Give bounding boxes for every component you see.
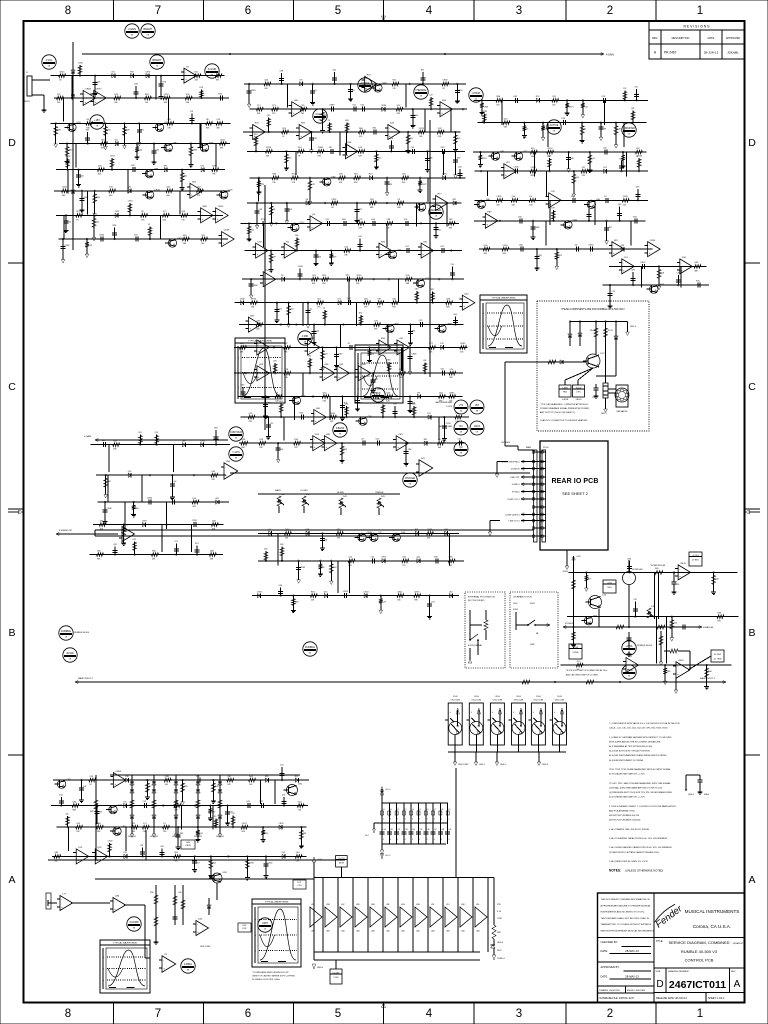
svg-text:COMP QUIET-4: COMP QUIET-4	[505, 514, 520, 516]
svg-text:*7T32 CAL MEASURED ~2 MINUTES: *7T32 CAL MEASURED ~2 MINUTES AFTER FULL	[540, 403, 589, 406]
svg-text:R43: R43	[345, 120, 348, 122]
svg-text:Q6: Q6	[312, 214, 316, 216]
svg-text:Q13: Q13	[260, 184, 264, 186]
svg-text:C53: C53	[603, 167, 606, 169]
svg-text:Q1: Q1	[314, 90, 317, 92]
svg-text:C65: C65	[201, 235, 206, 237]
svg-text:R92: R92	[387, 359, 390, 361]
svg-text:C28: C28	[382, 602, 385, 604]
svg-text:-: -	[258, 369, 259, 372]
svg-text:Q76: Q76	[673, 623, 677, 625]
svg-text:C52: C52	[251, 229, 254, 231]
svg-text:38K: 38K	[216, 127, 220, 129]
svg-text:R6: R6	[206, 119, 209, 121]
svg-text:3: 3	[516, 1008, 522, 1020]
svg-text:44K: 44K	[164, 102, 168, 104]
svg-text:U86: U86	[372, 128, 377, 130]
svg-text:0: 0	[103, 980, 104, 982]
svg-text:Q7: Q7	[361, 439, 365, 441]
svg-text:Q8: Q8	[66, 813, 69, 815]
svg-text:Q1: Q1	[310, 309, 313, 311]
svg-text:Q6: Q6	[174, 481, 177, 483]
svg-text:-: -	[681, 262, 682, 265]
svg-text:4: 4	[419, 839, 420, 841]
svg-text:4: 4	[412, 839, 413, 841]
svg-text:6: 6	[245, 5, 251, 17]
svg-text:COMP OUT 4: COMP OUT 4	[507, 499, 520, 501]
svg-text:+4V C: +4V C	[385, 789, 391, 791]
svg-text:C74: C74	[592, 397, 595, 399]
svg-text:WITH 4 APPLIANCES THE FOLLOWIN: WITH 4 APPLIANCES THE FOLLOWING DEVIATIO…	[609, 740, 661, 743]
svg-text:Q43: Q43	[464, 293, 469, 295]
svg-text:Q42: Q42	[333, 70, 337, 72]
svg-text:49K: 49K	[113, 449, 117, 451]
svg-text:R50: R50	[369, 174, 372, 176]
svg-text:Q28: Q28	[661, 272, 665, 274]
svg-text:SHEET: 1 OF 4: SHEET: 1 OF 4	[708, 997, 725, 1000]
svg-text:4: 4	[426, 5, 433, 17]
svg-text:C35: C35	[270, 423, 273, 425]
svg-text:28K: 28K	[62, 195, 66, 197]
svg-text:Q30: Q30	[267, 115, 271, 117]
svg-text:R1: R1	[584, 129, 586, 131]
svg-text:C86: C86	[155, 150, 158, 152]
svg-text:R64: R64	[655, 568, 658, 570]
svg-text:82K: 82K	[98, 174, 102, 176]
svg-text:6K: 6K	[48, 66, 51, 68]
svg-text:5K: 5K	[476, 432, 479, 434]
svg-text:CR74: CR74	[419, 128, 425, 130]
svg-text:21K: 21K	[582, 175, 586, 177]
svg-text:CR44: CR44	[99, 235, 105, 237]
svg-text:PGND-4: PGND-4	[497, 958, 505, 960]
svg-text:D28: D28	[339, 174, 344, 176]
svg-text:CR65: CR65	[251, 90, 256, 92]
svg-text:R69: R69	[333, 257, 336, 259]
svg-text:D87: D87	[551, 208, 554, 210]
svg-text:5K: 5K	[147, 35, 150, 37]
svg-text:Q96: Q96	[631, 270, 635, 272]
svg-text:TP41, TP42, TP45 42 ARE MEASUR: TP41, TP42, TP45 42 ARE MEASURED WITH NO…	[609, 768, 672, 771]
svg-text:+5.7VDC: +5.7VDC	[692, 555, 700, 557]
svg-text:48K: 48K	[695, 270, 699, 272]
svg-text:-: -	[613, 245, 614, 248]
svg-text:CR86: CR86	[253, 285, 258, 287]
svg-text:CR8: CR8	[313, 138, 317, 140]
svg-text:R44: R44	[442, 100, 447, 102]
svg-text:20K: 20K	[264, 88, 268, 90]
svg-text:+4V C: +4V C	[385, 855, 391, 857]
svg-text:Q58: Q58	[389, 138, 393, 140]
svg-text:Q58: Q58	[259, 364, 264, 366]
svg-text:4: 4	[441, 819, 442, 821]
svg-text:C71: C71	[143, 823, 148, 825]
svg-text:CR83: CR83	[192, 150, 197, 152]
svg-text:46K: 46K	[449, 565, 453, 567]
svg-text:CR43: CR43	[637, 156, 642, 158]
svg-text:4:VOL: 4:VOL	[46, 59, 53, 62]
svg-text:*NOTE FOOTSWITCH CONNECTED AT: *NOTE FOOTSWITCH CONNECTED AT 100s	[566, 669, 607, 672]
svg-text:-: -	[420, 463, 421, 466]
svg-text:PLUG: PLUG	[543, 447, 549, 449]
svg-text:CR43: CR43	[298, 266, 303, 268]
svg-text:CR35: CR35	[185, 845, 191, 847]
svg-text:2K: 2K	[435, 216, 438, 218]
svg-text:U71: U71	[459, 404, 464, 407]
svg-text:CR14: CR14	[531, 167, 537, 169]
svg-text:D87: D87	[378, 299, 383, 301]
svg-text:CTRL: CTRL	[576, 392, 581, 394]
svg-text:GRN/LED: GRN/LED	[194, 836, 203, 838]
svg-text:CR32: CR32	[496, 196, 502, 198]
svg-text:CR20: CR20	[678, 660, 684, 662]
svg-text:U52: U52	[360, 105, 365, 107]
svg-text:7: 7	[155, 1008, 161, 1020]
svg-text:R59: R59	[381, 338, 386, 340]
svg-text:28-MAY-13: 28-MAY-13	[625, 949, 639, 953]
svg-text:D1: D1	[148, 224, 150, 226]
svg-text:4: 4	[449, 839, 450, 841]
svg-text:Q71: Q71	[591, 158, 595, 160]
svg-text:73K: 73K	[298, 810, 302, 812]
svg-text:5. THIS SCHEMATIC SHEET 1, CON: 5. THIS SCHEMATIC SHEET 1, CONTROL IS FO…	[609, 805, 676, 808]
svg-text:0: 0	[238, 387, 239, 389]
svg-text:4:1 TRIM: 4:1 TRIM	[714, 659, 722, 661]
svg-text:U5-B: U5-B	[516, 696, 521, 698]
svg-text:85K: 85K	[257, 113, 261, 115]
svg-text:C40: C40	[676, 273, 679, 275]
svg-text:D32: D32	[441, 147, 446, 149]
svg-text:C3: C3	[438, 439, 441, 441]
svg-text:D53: D53	[288, 157, 291, 159]
svg-text:Q11: Q11	[325, 219, 330, 221]
svg-text:U86: U86	[226, 461, 231, 463]
svg-text:CR96: CR96	[251, 299, 257, 301]
svg-text:0: 0	[483, 339, 484, 341]
svg-text:9K: 9K	[442, 88, 445, 90]
svg-text:R34: R34	[241, 439, 246, 441]
svg-text:8K: 8K	[331, 207, 334, 209]
svg-text:4AMP INPUT 4: 4AMP INPUT 4	[700, 677, 716, 680]
svg-text:T-SEN: T-SEN	[562, 387, 568, 389]
svg-text:4: 4	[533, 712, 534, 714]
svg-text:30K: 30K	[449, 377, 453, 379]
svg-text:CR15: CR15	[640, 262, 646, 264]
svg-text:Q87: Q87	[113, 441, 118, 443]
svg-text:D35: D35	[201, 166, 204, 168]
svg-text:Q43: Q43	[449, 557, 454, 559]
svg-text:9K: 9K	[460, 453, 463, 455]
svg-text:4: 4	[405, 839, 406, 841]
svg-text:UH-L/C4M: UH-L/C4M	[450, 700, 460, 702]
svg-text:UH-L/C4M: UH-L/C4M	[555, 700, 565, 702]
svg-text:R96: R96	[344, 449, 347, 451]
svg-text:-: -	[326, 439, 327, 442]
svg-text:Q96: Q96	[575, 177, 579, 179]
svg-text:45-7845: 45-7845	[714, 654, 721, 656]
svg-text:U6: U6	[86, 119, 89, 121]
svg-text:74K: 74K	[419, 136, 423, 138]
svg-text:-: -	[84, 93, 85, 96]
svg-text:ACTIVE: ACTIVE	[550, 124, 559, 127]
svg-text:Q52: Q52	[197, 187, 202, 189]
svg-text:Q33: Q33	[715, 578, 719, 580]
svg-text:7K: 7K	[156, 66, 159, 68]
svg-text:L4: L4	[412, 809, 414, 811]
svg-text:C17: C17	[257, 105, 262, 107]
svg-text:-: -	[437, 198, 438, 201]
svg-text:0: 0	[238, 358, 239, 360]
svg-text:-: -	[77, 852, 78, 855]
svg-text:C43: C43	[405, 829, 408, 831]
svg-text:C9: C9	[164, 954, 168, 956]
svg-text:U59: U59	[101, 139, 106, 141]
svg-text:98K: 98K	[183, 243, 187, 245]
svg-text:B: B	[8, 627, 15, 639]
svg-text:4:BASS: 4:BASS	[336, 427, 345, 430]
svg-text:44.4 RUN BUTTON IN TYPICAL POS: 44.4 RUN BUTTON IN TYPICAL POSITION	[609, 750, 650, 753]
svg-text:R88: R88	[203, 206, 208, 208]
svg-text:7K: 7K	[65, 637, 68, 639]
svg-text:LM4: LM4	[431, 931, 435, 933]
svg-text:C82: C82	[184, 786, 187, 788]
svg-text:93K: 93K	[330, 421, 334, 423]
svg-text:88K: 88K	[73, 810, 77, 812]
svg-text:-: -	[225, 466, 226, 469]
svg-text:4K: 4K	[59, 80, 62, 82]
svg-text:-: -	[550, 196, 551, 199]
svg-text:U61: U61	[227, 776, 232, 778]
svg-text:49K: 49K	[241, 447, 245, 449]
svg-text:D90: D90	[406, 275, 411, 277]
svg-text:RUMBLE 40/100: RUMBLE 40/100	[74, 632, 90, 634]
svg-text:R13: R13	[254, 134, 257, 136]
svg-text:U29: U29	[376, 439, 381, 441]
svg-text:U57: U57	[196, 862, 199, 864]
svg-text:Q96: Q96	[115, 896, 120, 898]
svg-text:Q29: Q29	[97, 847, 102, 849]
svg-text:R98: R98	[718, 613, 723, 615]
svg-text:R32: R32	[424, 439, 427, 441]
svg-text:Q47: Q47	[167, 119, 172, 121]
svg-text:U5-GND: U5-GND	[333, 972, 341, 974]
svg-text:R77: R77	[588, 578, 591, 580]
svg-text:CR32: CR32	[200, 441, 205, 443]
svg-text:R36: R36	[152, 550, 157, 552]
svg-text:D5: D5	[186, 66, 190, 68]
svg-text:R11: R11	[428, 413, 431, 415]
svg-text:0: 0	[103, 968, 104, 970]
svg-text:U51: U51	[438, 229, 441, 231]
svg-text:C45: C45	[419, 829, 422, 831]
svg-text:0: 0	[255, 935, 256, 937]
svg-text:R8: R8	[141, 845, 143, 847]
svg-text:L6: L6	[427, 809, 429, 811]
svg-text:60K: 60K	[163, 219, 167, 221]
svg-text:R37: R37	[431, 289, 434, 291]
svg-text:TYPICAL WAVEFORMS: TYPICAL WAVEFORMS	[367, 347, 391, 350]
svg-text:U14: U14	[358, 147, 363, 149]
svg-text:C44: C44	[412, 829, 415, 831]
svg-text:57K: 57K	[296, 860, 300, 862]
svg-text:Q29: Q29	[282, 128, 287, 130]
svg-text:R65: R65	[135, 508, 138, 510]
svg-text:U57: U57	[475, 404, 480, 407]
svg-text:C91: C91	[190, 111, 193, 113]
svg-text:7K: 7K	[298, 155, 301, 157]
svg-text:CR82: CR82	[482, 111, 487, 113]
svg-text:CR56: CR56	[266, 147, 272, 149]
svg-text:U5B: U5B	[326, 904, 330, 906]
svg-text:D85: D85	[342, 219, 347, 221]
svg-text:8K: 8K	[131, 35, 134, 37]
svg-text:R22: R22	[354, 174, 359, 176]
svg-text:CR52: CR52	[330, 413, 336, 415]
svg-text:U14: U14	[200, 87, 203, 89]
svg-text:77K: 77K	[337, 537, 341, 539]
svg-text:63K: 63K	[427, 537, 431, 539]
svg-text:4A: 4A	[536, 632, 539, 635]
svg-text:R46: R46	[57, 129, 60, 131]
svg-text:GND-1: GND-1	[479, 764, 485, 766]
svg-text:9K: 9K	[409, 484, 412, 486]
svg-text:(POWER SUPPLY BYPASS CAPACITOR: (POWER SUPPLY BYPASS CAPACITORS ARE 20%)	[609, 851, 659, 854]
svg-text:REV.: REV.	[652, 36, 658, 40]
svg-text:Q84: Q84	[347, 298, 352, 300]
svg-text:19K: 19K	[240, 351, 244, 353]
svg-text:40 VOLTAGES MAY VARY BY +/- 20: 40 VOLTAGES MAY VARY BY +/- 20%	[609, 773, 645, 776]
svg-text:2K: 2K	[89, 784, 92, 786]
svg-text:78K: 78K	[216, 80, 220, 82]
svg-text:CR20: CR20	[108, 840, 113, 842]
svg-text:U31: U31	[404, 219, 409, 221]
svg-text:U27: U27	[506, 162, 511, 164]
svg-text:D3: D3	[352, 90, 354, 92]
svg-text:22K: 22K	[272, 113, 276, 115]
svg-text:R E V I S I O N S: R E V I S I O N S	[683, 25, 710, 29]
svg-text:CR20: CR20	[547, 148, 553, 150]
svg-text:R30: R30	[69, 150, 72, 152]
svg-text:-: -	[300, 127, 301, 130]
svg-text:-: -	[114, 901, 115, 904]
svg-text:CR92: CR92	[442, 174, 447, 176]
svg-text:1K: 1K	[69, 659, 72, 661]
svg-text:CR9: CR9	[398, 434, 403, 436]
svg-text:U36: U36	[636, 187, 639, 189]
svg-text:R75: R75	[696, 281, 701, 283]
svg-text:4:GAIN: 4:GAIN	[606, 54, 614, 57]
svg-text:CR48: CR48	[107, 508, 112, 510]
svg-text:71K: 71K	[496, 104, 500, 106]
svg-text:CR15: CR15	[659, 284, 665, 286]
svg-text:C32: C32	[128, 187, 131, 189]
svg-text:Q60: Q60	[323, 392, 328, 394]
svg-text:R32: R32	[381, 241, 386, 243]
svg-text:U37: U37	[317, 299, 322, 301]
svg-text:L1: L1	[390, 809, 392, 811]
svg-text:CR41: CR41	[331, 199, 337, 201]
svg-text:7K: 7K	[76, 219, 79, 221]
svg-text:Q34: Q34	[166, 187, 171, 189]
svg-text:C86: C86	[386, 219, 391, 221]
svg-text:D20: D20	[458, 167, 461, 169]
svg-text:-: -	[223, 235, 224, 238]
svg-text:4:PWR-LED: 4:PWR-LED	[632, 569, 643, 571]
svg-text:APPROVED: APPROVED	[726, 36, 741, 40]
svg-text:-: -	[61, 899, 62, 902]
svg-text:U65: U65	[183, 235, 188, 237]
svg-text:U5C: U5C	[341, 904, 345, 906]
svg-text:Q95: Q95	[76, 823, 81, 825]
svg-text:U85: U85	[514, 96, 519, 98]
svg-text:LM4: LM4	[401, 931, 405, 933]
svg-text:U65: U65	[504, 119, 509, 121]
svg-text:1K: 1K	[235, 438, 238, 440]
svg-text:C96: C96	[273, 361, 276, 363]
svg-text:R66: R66	[359, 128, 364, 130]
svg-text:C87: C87	[256, 320, 261, 322]
svg-text:-: -	[347, 147, 348, 150]
svg-text:R30: R30	[164, 166, 167, 168]
svg-text:CR76: CR76	[414, 591, 420, 593]
svg-text:U21: U21	[631, 108, 634, 110]
svg-text:C99: C99	[216, 119, 221, 121]
svg-text:U74: U74	[577, 661, 582, 663]
svg-text:28K: 28K	[378, 307, 382, 309]
svg-text:U20: U20	[186, 94, 191, 96]
svg-text:28-JUN-13: 28-JUN-13	[704, 51, 719, 55]
svg-text:U99: U99	[223, 872, 228, 874]
svg-text:J-GRN4: J-GRN4	[562, 399, 569, 401]
svg-text:U65: U65	[282, 852, 285, 854]
svg-text:C39: C39	[89, 776, 94, 778]
svg-text:U5I: U5I	[431, 904, 434, 906]
svg-text:AND PCB ASSEMBLY P/Ns:: AND PCB ASSEMBLY P/Ns:	[609, 809, 636, 812]
svg-text:CR32: CR32	[66, 156, 71, 158]
svg-text:R49: R49	[86, 130, 89, 132]
svg-text:R41: R41	[184, 176, 187, 178]
svg-text:4: 4	[434, 819, 435, 821]
svg-text:MAX PRE&B MAX: MAX PRE&B MAX	[435, 401, 452, 404]
svg-text:CR69: CR69	[65, 245, 70, 247]
svg-text:Q85: Q85	[54, 852, 59, 854]
svg-text:9K: 9K	[235, 458, 238, 460]
svg-text:67K: 67K	[359, 227, 363, 229]
svg-text:CR95: CR95	[650, 240, 656, 242]
svg-text:LM4: LM4	[341, 931, 345, 933]
svg-text:FTSW: FTSW	[573, 647, 579, 649]
svg-text:96K: 96K	[166, 195, 170, 197]
svg-text:4V-C: 4V-C	[365, 835, 370, 837]
svg-text:CR41: CR41	[503, 245, 509, 247]
svg-text:C23: C23	[324, 353, 327, 355]
svg-text:C16: C16	[143, 801, 148, 803]
svg-text:49K: 49K	[354, 182, 358, 184]
svg-text:GRN/LED: GRN/LED	[128, 836, 137, 838]
svg-text:R12: R12	[195, 72, 200, 74]
svg-text:J-BLK4: J-BLK4	[576, 399, 582, 401]
svg-text:C92: C92	[623, 88, 626, 90]
svg-text:* POWER AMPLIFIER DRIVEN INTO: * POWER AMPLIFIER DRIVEN INTO 4R	[252, 971, 289, 974]
svg-text:4:DRIVE: 4:DRIVE	[360, 82, 370, 85]
svg-text:CR15: CR15	[218, 206, 224, 208]
svg-text:R57: R57	[457, 157, 460, 159]
svg-text:C41: C41	[390, 829, 393, 831]
svg-text:CR71: CR71	[569, 106, 574, 108]
svg-text:Q11: Q11	[441, 369, 446, 371]
svg-text:CR67: CR67	[142, 520, 147, 522]
svg-text:GND 4: GND 4	[630, 326, 637, 328]
